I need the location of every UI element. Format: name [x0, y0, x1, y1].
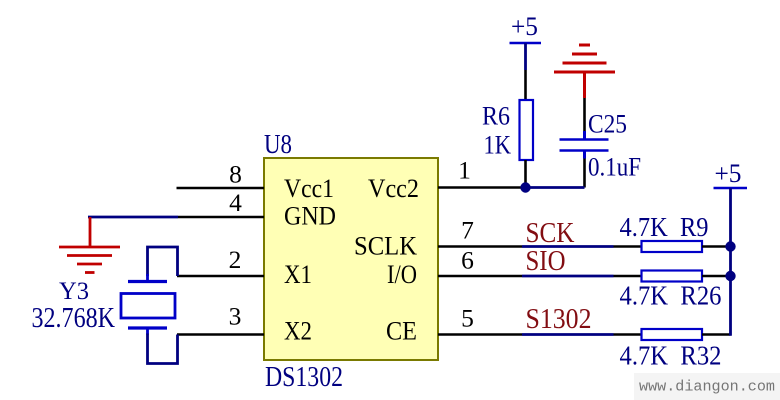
- pin 2 stub: [177, 275, 264, 278]
- pin 4 stub: [178, 216, 264, 219]
- svg-text:4.7K R9: 4.7K R9: [620, 211, 709, 242]
- pin 1 stub: [438, 186, 526, 189]
- junction dot R9/+5: [725, 241, 735, 251]
- junction dot Vcc2 net: [520, 182, 530, 192]
- svg-text:+5: +5: [511, 12, 538, 41]
- capacitor C25 top stub: [583, 131, 586, 140]
- svg-text:32.768K: 32.768K: [32, 303, 116, 334]
- svg-text:4.7K R26: 4.7K R26: [620, 280, 722, 311]
- svg-text:U8: U8: [264, 129, 292, 159]
- svg-text:I/O: I/O: [387, 260, 417, 289]
- svg-text:R6: R6: [482, 101, 510, 131]
- resistor R32 body: [642, 329, 703, 340]
- wire R32 left lead: [614, 333, 643, 336]
- capacitor C25 top plate: [560, 138, 609, 141]
- resistor R6 body: [520, 100, 534, 160]
- svg-text:Vcc1: Vcc1: [284, 174, 334, 203]
- svg-text:X2: X2: [284, 317, 312, 346]
- IC U8 body DS1302: [264, 158, 438, 360]
- wire R32 right lead: [702, 333, 731, 336]
- resistor R26 body: [642, 271, 703, 282]
- capacitor C25 bottom plate: [560, 149, 609, 152]
- pin 3 stub: [177, 333, 264, 336]
- svg-text:1K: 1K: [484, 130, 512, 160]
- svg-text:1: 1: [458, 156, 471, 185]
- pin 5 stub: [438, 333, 522, 336]
- wire +5 vertical bus: [729, 188, 732, 336]
- svg-text:C25: C25: [588, 109, 627, 139]
- svg-text:S1302: S1302: [526, 304, 592, 335]
- svg-text:8: 8: [229, 160, 242, 189]
- svg-text:4.7K R32: 4.7K R32: [620, 340, 722, 371]
- svg-text:7: 7: [461, 216, 474, 245]
- wire R26 left lead: [614, 275, 643, 278]
- resistor R9 body: [642, 241, 703, 252]
- svg-text:SIO: SIO: [526, 246, 566, 277]
- wire R9 left lead: [614, 245, 643, 248]
- pin 8 stub: [177, 187, 265, 190]
- svg-text:X1: X1: [284, 260, 312, 289]
- svg-text:+5: +5: [715, 159, 742, 188]
- svg-text:2: 2: [229, 245, 242, 274]
- resistor R6 bottom lead: [524, 160, 527, 188]
- wire R9 right lead: [702, 245, 731, 248]
- svg-text:SCK: SCK: [526, 218, 575, 249]
- wire SIO net segment: [522, 275, 614, 278]
- wire SCK net segment: [522, 245, 614, 248]
- capacitor C25 bottom stub: [583, 151, 586, 159]
- wire Vcc2 net junction to C25: [526, 186, 585, 189]
- svg-text:GND: GND: [284, 202, 336, 231]
- crystal bottom lead stub: [146, 328, 149, 335]
- pin 7 stub: [438, 245, 522, 248]
- crystal top lead stub: [146, 274, 149, 282]
- wire S1302 net segment: [522, 333, 614, 336]
- wire R26 right lead: [702, 275, 731, 278]
- crystal top plate: [128, 280, 167, 283]
- wire crystal top n-path: [148, 247, 178, 276]
- svg-text:4: 4: [229, 188, 242, 217]
- svg-text:0.1uF: 0.1uF: [588, 152, 641, 182]
- svg-text:Y3: Y3: [59, 276, 89, 305]
- power ground symbol red (above C25): [554, 45, 615, 98]
- svg-text:3: 3: [229, 302, 242, 331]
- svg-text:6: 6: [461, 246, 474, 275]
- crystal bottom plate: [128, 326, 167, 329]
- wire ground drop (red): [89, 217, 92, 247]
- resistor R6 top lead: [524, 70, 527, 100]
- crystal body Y3: [121, 294, 175, 319]
- ground earth symbol: [59, 247, 120, 273]
- svg-text:CE: CE: [386, 317, 417, 346]
- wire crystal bottom n-path: [148, 334, 178, 364]
- svg-text:DS1302: DS1302: [265, 362, 343, 393]
- svg-text:5: 5: [461, 304, 474, 333]
- svg-text:Vcc2: Vcc2: [368, 174, 419, 203]
- capacitor C25 bottom lead: [583, 159, 586, 188]
- watermark band: [634, 373, 780, 400]
- pin 6 stub: [438, 275, 522, 278]
- svg-text:www.diangon.com: www.diangon.com: [639, 379, 775, 396]
- junction dot R26/+5: [725, 271, 735, 281]
- wire GND net: [88, 216, 178, 219]
- svg-text:SCLK: SCLK: [354, 232, 417, 261]
- capacitor C25 top lead: [583, 98, 586, 131]
